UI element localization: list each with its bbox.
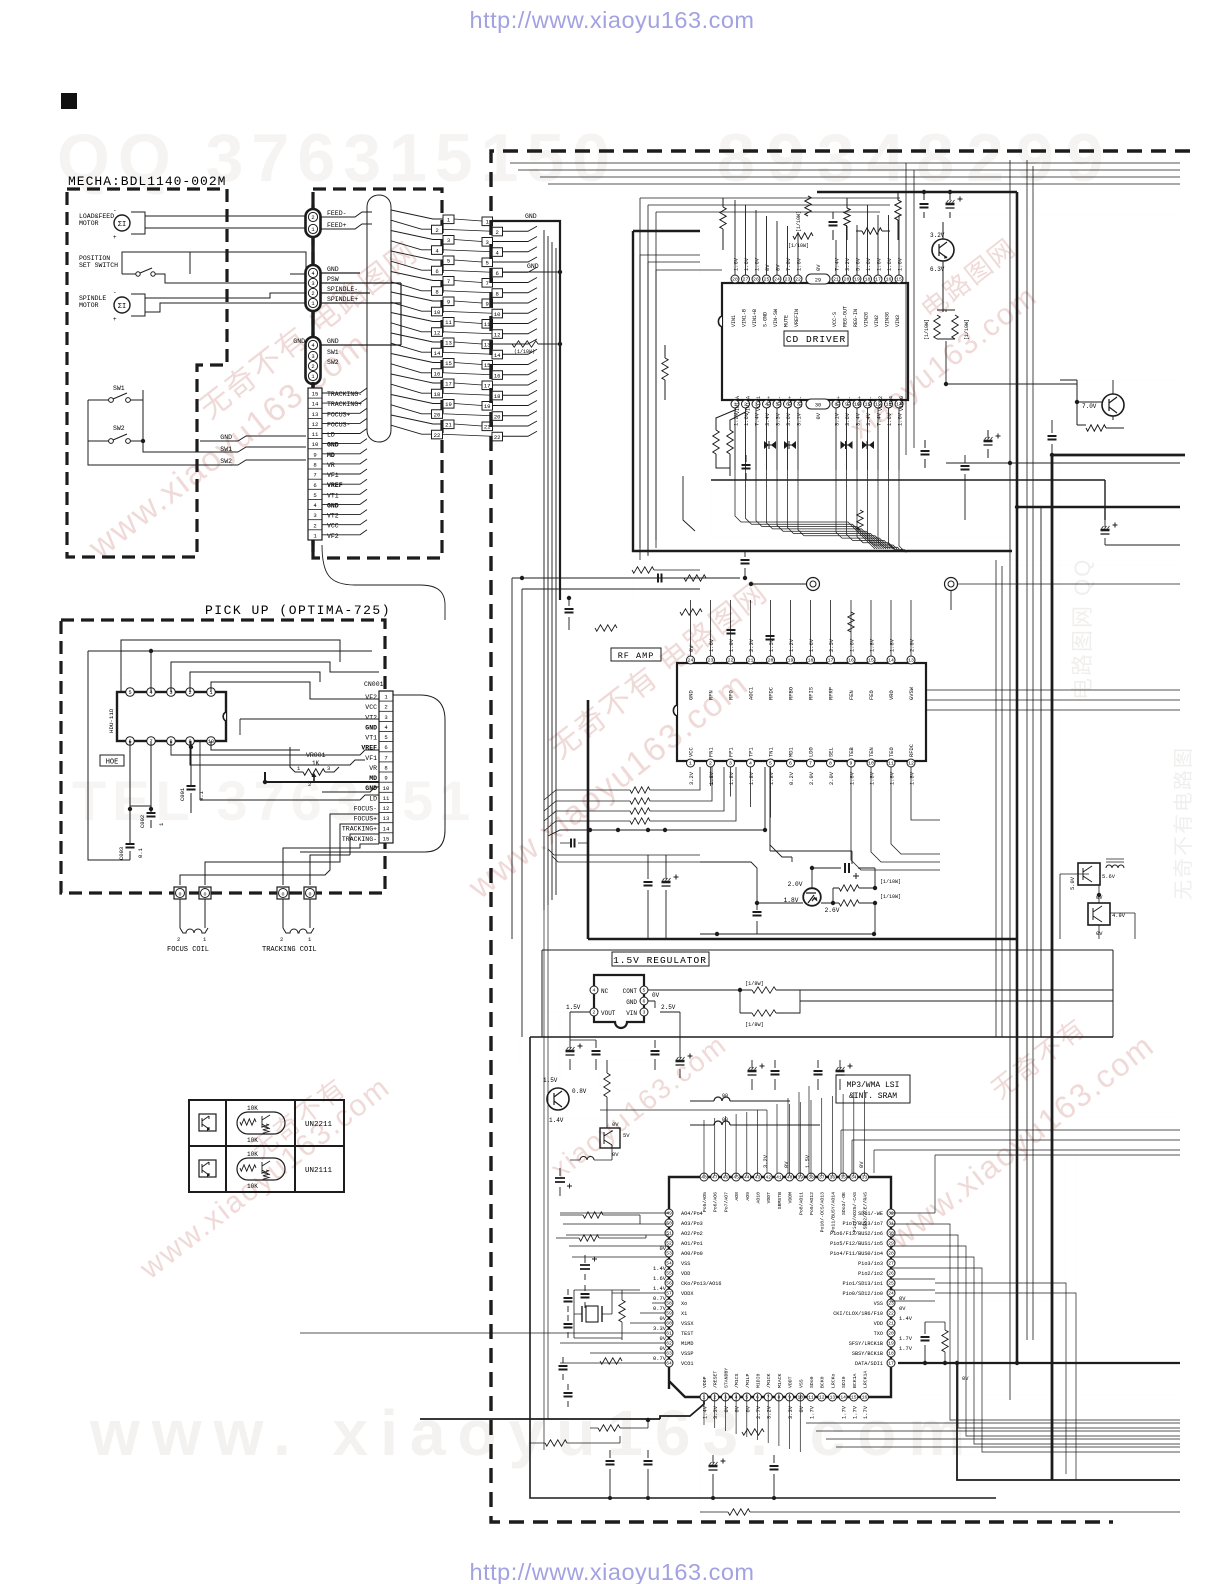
electrolytic C m1 [751, 1060, 753, 1090]
svg-text:12: 12 [312, 421, 319, 428]
svg-text:21: 21 [833, 277, 839, 283]
resistor R top2 [1/10W] [805, 196, 811, 216]
svg-text:VSSP: VSSP [681, 1351, 693, 1357]
svg-text:2.6V: 2.6V [825, 907, 840, 914]
svg-text:AO8: AO8 [734, 1192, 740, 1201]
svg-text:VREF: VREF [327, 482, 343, 489]
svg-text:63: 63 [666, 1351, 672, 1357]
wire psw box [320, 273, 401, 345]
wire right thick horizontals [1017, 506, 1180, 509]
resistor R b3 [857, 510, 863, 530]
svg-text:VCC-S: VCC-S [832, 312, 838, 327]
resistor R pair vertical [1/10W] [934, 315, 940, 339]
svg-text:28: 28 [888, 1251, 894, 1257]
svg-text:6: 6 [384, 744, 387, 751]
wire focus/tracking down [180, 814, 379, 885]
1.5V REGULATOR label box [612, 952, 709, 966]
svg-text:19: 19 [788, 658, 794, 664]
svg-text:FOCUS-: FOCUS- [354, 805, 377, 812]
svg-text:Po11/BUSY/AO14: Po11/BUSY/AO14 [830, 1192, 836, 1232]
svg-text:Pio2/io2: Pio2/io2 [858, 1271, 883, 1277]
wire pin4 node [88, 651, 372, 860]
svg-text:23: 23 [888, 1301, 894, 1307]
wire thick mid right [1052, 454, 1185, 457]
wire top nest [121, 640, 340, 692]
svg-text:AO9: AO9 [745, 1192, 751, 1201]
capacitor C top1 [832, 212, 834, 240]
svg-text:1.8V: 1.8V [870, 638, 876, 652]
svg-text:/M1LP: /M1LP [745, 1373, 751, 1388]
svg-text:21: 21 [748, 658, 754, 664]
terminal focus 1 [199, 887, 211, 899]
svg-text:0V: 0V [660, 1336, 667, 1342]
resistor R fan2 [630, 798, 650, 804]
svg-text:00: 00 [722, 1093, 728, 1099]
svg-text:PICK UP (OPTIMA-725): PICK UP (OPTIMA-725) [205, 603, 391, 618]
svg-text:VIN3G: VIN3G [885, 312, 891, 327]
svg-text:o: o [203, 892, 206, 898]
resistor R bb3 [742, 1429, 764, 1435]
svg-text:25: 25 [888, 1281, 894, 1287]
svg-text:VIN2G: VIN2G [864, 312, 870, 327]
svg-text:FEED+: FEED+ [327, 222, 347, 229]
inductor L r1 [1106, 865, 1124, 868]
tracking coil [283, 899, 310, 928]
svg-text:22: 22 [888, 1311, 894, 1317]
svg-text:10: 10 [434, 309, 441, 316]
svg-text:29: 29 [815, 278, 821, 284]
svg-text:HDU-11D: HDU-11D [108, 708, 115, 733]
wire feed loop [320, 212, 372, 229]
svg-text:3: 3 [447, 237, 450, 244]
svg-text:[1/10W]: [1/10W] [964, 319, 970, 340]
svg-text:20: 20 [768, 658, 774, 664]
resistor R r1 [942, 1330, 948, 1352]
wire possw loop [122, 252, 306, 283]
svg-text:o: o [178, 892, 181, 898]
capacitor C rf1 [745, 633, 756, 640]
svg-text:0V: 0V [859, 1161, 865, 1168]
wire top right verticals [906, 163, 914, 455]
svg-text:HOE: HOE [106, 759, 119, 767]
svg-text:BCK0: BCK0 [820, 1376, 826, 1388]
svg-text:16: 16 [848, 658, 854, 664]
svg-text:18: 18 [494, 393, 501, 400]
svg-text:5.0V: 5.0V [1070, 876, 1076, 890]
electrolytic C ld [845, 863, 849, 873]
svg-text:5: 5 [643, 988, 646, 994]
transistor symbol UN2111 [199, 1160, 216, 1177]
wire rf left entry [541, 560, 633, 600]
svg-text:3.6V: 3.6V [845, 412, 851, 426]
wire sw to labels [238, 447, 306, 465]
svg-text:3.2V: 3.2V [767, 1405, 773, 1419]
svg-text:30: 30 [888, 1231, 894, 1237]
electrolytic C rfb2 [665, 855, 667, 939]
wire cd top pin drops [734, 200, 736, 275]
resistor R rf3 vert [848, 612, 854, 632]
svg-text:15: 15 [851, 1395, 857, 1401]
svg-text:14: 14 [312, 401, 319, 408]
svg-text:14: 14 [434, 350, 441, 357]
svg-text:3: 3 [311, 281, 314, 287]
wire mp3 right fans [890, 1212, 935, 1214]
connector CN feed pins [306, 209, 321, 237]
svg-text:56: 56 [666, 1281, 672, 1287]
svg-text:GND: GND [365, 724, 377, 731]
capacitor C rfm2 [568, 598, 570, 630]
svg-text:RFN: RFN [709, 690, 715, 700]
svg-text:+: + [113, 316, 117, 323]
svg-text:TEO: TEO [889, 747, 895, 757]
svg-text:5.6V: 5.6V [1102, 874, 1116, 880]
svg-text:1.5V REGULATOR: 1.5V REGULATOR [613, 955, 707, 966]
svg-text:57: 57 [666, 1291, 672, 1297]
svg-text:3.2V: 3.2V [763, 1154, 769, 1168]
wire q ld right column [874, 903, 876, 934]
svg-text:10K: 10K [247, 1137, 258, 1144]
svg-text:3.2V: 3.2V [845, 257, 851, 271]
HOE box [100, 755, 124, 766]
svg-text:5: 5 [486, 260, 489, 267]
svg-text:AO3/Po3: AO3/Po3 [681, 1221, 703, 1227]
svg-text:VCO1: VCO1 [681, 1361, 693, 1367]
transistor UN2111 equiv circuit [237, 1158, 285, 1180]
svg-text:25: 25 [764, 277, 770, 283]
svg-text:7: 7 [809, 761, 812, 767]
IC CD DRIVER top pins [731, 275, 739, 283]
wire left nest cd [640, 255, 722, 560]
capacitor C rfm1 series [658, 574, 662, 583]
capacitor C ld base [756, 903, 758, 934]
svg-text:TXO: TXO [874, 1331, 883, 1337]
svg-text:RFIS: RFIS [809, 687, 815, 700]
svg-text:Po9/AO12: Po9/AO12 [809, 1192, 815, 1215]
svg-text:Pio5/F12/BUS1/io5: Pio5/F12/BUS1/io5 [830, 1241, 883, 1247]
svg-text:2: 2 [280, 936, 283, 943]
svg-text:1.6V: 1.6V [744, 257, 750, 271]
svg-text:RFDC: RFDC [769, 687, 775, 700]
svg-text:Po5/AO5: Po5/AO5 [702, 1192, 708, 1212]
svg-text:2: 2 [384, 704, 387, 711]
svg-text:GND: GND [220, 434, 232, 441]
svg-text:18: 18 [808, 658, 814, 664]
svg-text:AO1/Po1: AO1/Po1 [681, 1241, 703, 1247]
svg-text:Pio3/io3: Pio3/io3 [858, 1261, 883, 1267]
svg-text:4.9V: 4.9V [1112, 913, 1126, 919]
svg-text:FN1: FN1 [709, 747, 715, 757]
wire ladder2 gnd rails [493, 221, 561, 600]
IC MP3 right pins [887, 1209, 895, 1217]
resistor R bb1 [598, 1425, 620, 1431]
main board dashed outline [491, 151, 1190, 1522]
svg-text:27: 27 [743, 277, 749, 283]
svg-text:TP1: TP1 [749, 747, 755, 757]
svg-text:22: 22 [434, 432, 441, 439]
svg-text:6: 6 [313, 482, 316, 489]
svg-text:VDDX: VDDX [681, 1291, 694, 1297]
wire right bus horizontals [996, 560, 1180, 566]
wire q1 [924, 218, 950, 239]
capacitor C b3 electrolytic [987, 430, 989, 458]
svg-text:FOCUS+: FOCUS+ [327, 411, 351, 418]
svg-text:1.5V: 1.5V [566, 1004, 581, 1011]
svg-text:7.0V: 7.0V [1082, 403, 1097, 410]
wire cd bottom pin drops [734, 408, 736, 470]
svg-text:-: - [113, 207, 117, 214]
svg-text:1.7V: 1.7V [899, 1346, 913, 1352]
transistor symbol UN2211 [199, 1114, 216, 1131]
resistor R fan1 [630, 787, 650, 793]
svg-text:FP1: FP1 [729, 747, 735, 757]
svg-text:1: 1 [311, 227, 314, 233]
svg-text:SET SWITCH: SET SWITCH [79, 262, 118, 269]
svg-text:0V: 0V [735, 1405, 741, 1412]
svg-text:9: 9 [486, 301, 489, 308]
svg-text:0V: 0V [612, 1121, 619, 1128]
svg-text:20: 20 [494, 413, 501, 420]
svg-text:VCC: VCC [689, 747, 695, 757]
wire bottom bus loop [683, 476, 695, 531]
digital transistor Q r1 5.0V [1078, 863, 1100, 885]
svg-text:VT2: VT2 [365, 714, 377, 721]
resistor R bb2 [545, 1440, 567, 1446]
svg-text:1K: 1K [312, 760, 320, 767]
diode pair D3 [841, 441, 853, 449]
wire reg out left [542, 1011, 590, 1013]
svg-text:5: 5 [384, 734, 387, 741]
svg-text:GND: GND [527, 263, 539, 270]
svg-text:7: 7 [384, 754, 387, 761]
svg-text:VO3+: VO3+ [836, 396, 842, 408]
svg-text:2: 2 [177, 936, 180, 943]
svg-text:FOCUS+: FOCUS+ [354, 816, 378, 823]
svg-text:10: 10 [312, 441, 319, 448]
svg-text:MOTOR: MOTOR [79, 220, 99, 227]
svg-text:GND: GND [293, 338, 305, 345]
svg-text:27: 27 [888, 1261, 894, 1267]
capacitor C reg3 [654, 1040, 656, 1070]
svg-text:0V: 0V [784, 1161, 790, 1168]
svg-text:20: 20 [844, 277, 850, 283]
svg-text:SW2: SW2 [220, 458, 232, 465]
regulator section box [542, 950, 1113, 1037]
resistor R xtal [619, 1300, 625, 1322]
wire bottom junctions [608, 1496, 612, 1500]
svg-text:MD1: MD1 [789, 747, 795, 757]
svg-text:0.7V: 0.7V [653, 1306, 667, 1312]
electrolytic C ml1 [584, 1255, 586, 1280]
svg-text:2: 2 [313, 522, 316, 529]
svg-text:Pio7/BUS3/io7: Pio7/BUS3/io7 [843, 1221, 883, 1227]
wire cd right pins up [836, 205, 899, 275]
svg-text:0V: 0V [660, 1316, 667, 1322]
svg-text:SFSY/LRCK1B: SFSY/LRCK1B [849, 1341, 883, 1347]
terminal tracking 1 [304, 887, 316, 899]
svg-text:TEST: TEST [681, 1331, 693, 1337]
svg-text:16: 16 [434, 370, 441, 377]
svg-text:24: 24 [888, 1291, 894, 1297]
svg-text:o: o [281, 892, 284, 898]
connector ladder 22pin inner [443, 215, 454, 224]
capacitor C bb2 [647, 1450, 649, 1498]
svg-text:9: 9 [850, 761, 853, 767]
svg-text:1.6V: 1.6V [866, 257, 872, 271]
svg-text:13: 13 [312, 411, 319, 418]
diode pair D1 [764, 441, 776, 449]
svg-text:60: 60 [666, 1321, 672, 1327]
svg-text:12: 12 [494, 331, 501, 338]
svg-text:24: 24 [688, 658, 694, 664]
svg-text:GND: GND [327, 266, 339, 273]
diode pair D2 [784, 441, 796, 449]
svg-text:LDO: LDO [809, 747, 815, 757]
svg-text:VO3-: VO3- [847, 396, 853, 408]
svg-text:VIN1+A: VIN1+A [746, 396, 752, 414]
svg-text:13: 13 [445, 340, 452, 347]
svg-text:10K: 10K [247, 1151, 258, 1158]
svg-text:http://www.xiaoyu163.com: http://www.xiaoyu163.com [470, 1559, 755, 1584]
svg-text:1.6V: 1.6V [850, 638, 856, 652]
svg-text:0.7V: 0.7V [653, 1356, 667, 1362]
svg-text:0V: 0V [816, 412, 822, 419]
svg-text:14: 14 [840, 1395, 846, 1401]
IC RF AMP body [677, 663, 926, 761]
svg-text:0V: 0V [660, 1246, 667, 1252]
capacitor C b2 [924, 440, 926, 468]
svg-text:17: 17 [888, 1361, 894, 1367]
svg-text:AO4/Po4: AO4/Po4 [681, 1211, 703, 1217]
svg-text:VSS: VSS [874, 1301, 883, 1307]
svg-text:ΣI: ΣI [118, 221, 126, 229]
svg-text:TRACKING-: TRACKING- [327, 391, 362, 398]
svg-text:RFBO: RFBO [789, 687, 795, 700]
svg-text:GND: GND [327, 338, 339, 345]
svg-text:0V: 0V [745, 1405, 751, 1412]
resistor R rf1 [595, 625, 617, 631]
svg-text:1.7V: 1.7V [842, 1405, 848, 1419]
svg-text:CN001: CN001 [364, 681, 384, 688]
svg-text:0V: 0V [799, 1405, 805, 1412]
svg-text:1.6V: 1.6V [709, 638, 715, 652]
svg-text:VR001: VR001 [306, 752, 326, 759]
resistor R ld2 [1/10W] [839, 900, 859, 906]
wire spindle to connector [145, 293, 306, 298]
svg-text:5V: 5V [623, 1132, 630, 1139]
svg-text:TN1: TN1 [769, 747, 775, 757]
svg-text:2: 2 [311, 291, 314, 297]
svg-text:C001: C001 [179, 787, 186, 801]
svg-text:6: 6 [789, 761, 792, 767]
resistor R top1 [720, 207, 726, 229]
electrolytic C m4 [839, 1060, 841, 1090]
svg-text:20: 20 [888, 1331, 894, 1337]
diode pair D4 [862, 441, 874, 449]
connector 15-pin strip [308, 388, 322, 540]
svg-text:2: 2 [311, 215, 314, 221]
svg-text:13: 13 [830, 1395, 836, 1401]
svg-text:00: 00 [722, 1117, 728, 1123]
svg-text:LD: LD [369, 795, 377, 802]
svg-text:0V: 0V [612, 1151, 619, 1158]
capacitor C ml2 [584, 1285, 586, 1308]
resistor R rf chain [680, 609, 702, 615]
electrolytic C q [559, 1168, 561, 1196]
svg-text:RF AMP: RF AMP [618, 651, 655, 661]
resistor R [1/10W] ladder [502, 343, 512, 345]
capacitor C m2 [774, 1060, 776, 1090]
svg-text:1.6V: 1.6V [887, 412, 893, 426]
svg-text:41: 41 [776, 1175, 782, 1181]
resistor R ml1 [583, 1212, 603, 1218]
svg-text:7.4V: 7.4V [755, 412, 761, 426]
svg-text:2.3V: 2.3V [749, 638, 755, 652]
svg-text:VO2+: VO2+ [788, 396, 794, 408]
svg-text:1: 1 [311, 301, 314, 307]
svg-text:21: 21 [445, 422, 452, 429]
capacitor C vcc1 [923, 192, 925, 218]
svg-text:VIN1+B: VIN1+B [752, 309, 758, 327]
svg-text:CD DRIVER: CD DRIVER [786, 334, 846, 345]
resistor R top6 [895, 200, 901, 220]
svg-text:VCC: VCC [365, 704, 377, 711]
capacitor C lo1 [565, 835, 588, 837]
svg-text:7.4V: 7.4V [877, 412, 883, 426]
wire 7v up [1060, 380, 1113, 394]
svg-text:10: 10 [383, 785, 390, 792]
wire right stubs top [899, 215, 1180, 380]
svg-text:MD: MD [327, 452, 335, 459]
svg-text:/M1CK: /M1CK [766, 1373, 772, 1388]
svg-text:VOUT: VOUT [601, 1010, 616, 1017]
wire rf left lower rails [548, 849, 700, 862]
IC CD DRIVER bottom pins [731, 400, 739, 408]
svg-text:26: 26 [753, 277, 759, 283]
svg-text:LRCK1A: LRCK1A [863, 1371, 869, 1388]
svg-text:VIN1-B: VIN1-B [742, 309, 748, 327]
svg-text:3: 3 [486, 239, 489, 246]
svg-text:0.7V: 0.7V [653, 1296, 667, 1302]
capacitor C001 0.1 [190, 741, 192, 813]
svg-text:GND: GND [327, 442, 339, 449]
MP3/WMA label box [836, 1075, 910, 1103]
svg-text:NC: NC [601, 988, 609, 995]
resistor R q2 [604, 1073, 610, 1097]
connector spine wire [311, 205, 314, 390]
resistor R fan3 [630, 808, 650, 814]
svg-text:8: 8 [384, 765, 387, 772]
svg-text:3: 3 [643, 1010, 646, 1016]
svg-text:1.7V: 1.7V [852, 1405, 858, 1419]
svg-text:STANDBY: STANDBY [723, 1368, 729, 1388]
svg-text:3: 3 [729, 761, 732, 767]
svg-text:-: - [113, 289, 117, 296]
svg-text:3.3V: 3.3V [713, 1405, 719, 1419]
wire bottom pins to cn [171, 741, 379, 755]
wire ld bundle corner [700, 767, 792, 862]
svg-text:VF1: VF1 [365, 755, 377, 762]
svg-text:17: 17 [875, 277, 881, 283]
capacitor C reg1 electrolytic [569, 1040, 571, 1070]
svg-text:0V: 0V [765, 264, 771, 271]
wire lower right loops [1040, 507, 1042, 1037]
svg-text:VF2: VF2 [327, 533, 339, 540]
page mark black square [61, 93, 77, 109]
svg-text:19: 19 [484, 403, 491, 410]
capacitor C bl2 [567, 1384, 569, 1407]
svg-text:2.0V: 2.0V [829, 771, 835, 785]
electrolytic C bb3 [712, 1455, 714, 1498]
